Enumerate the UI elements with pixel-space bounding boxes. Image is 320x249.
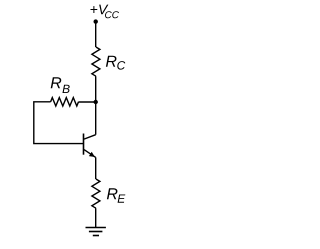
wire from +VCC terminal to RC (95, 22, 97, 47)
ground (86, 227, 106, 229)
transistor Q1 collector lead (84, 135, 96, 139)
resistor RE (92, 179, 100, 208)
resistor RB (51, 98, 79, 106)
wire RB left leg down and to base (34, 102, 84, 144)
label RB (51, 77, 62, 88)
label RC (106, 56, 117, 67)
transistor Q1 emitter arrowhead (89, 152, 95, 157)
label RE (107, 188, 118, 199)
wire RE to ground (95, 208, 97, 227)
label +VCC (90, 5, 108, 15)
wire emitter to RE (95, 157, 97, 179)
transistor Q1 emitter lead (84, 150, 96, 158)
wire RC to collector node (95, 76, 97, 102)
node collector junction dot (94, 100, 98, 104)
node +VCC terminal dot (94, 19, 98, 23)
transistor Q1 base bar (83, 134, 85, 155)
wire collector node to RB (79, 101, 96, 103)
resistor RC (92, 47, 100, 76)
wire collector node down to transistor collector (95, 102, 97, 135)
